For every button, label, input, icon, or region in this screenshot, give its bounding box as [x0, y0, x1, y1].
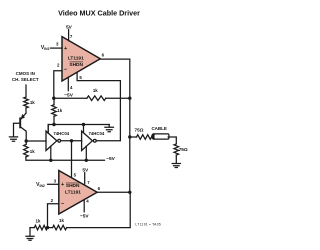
- resistor 75 ohm terminator: [174, 144, 179, 155]
- wire U1 output: [100, 59, 130, 192]
- ground symbol (rail end): [105, 125, 114, 132]
- svg-text:75Ω: 75Ω: [179, 147, 188, 152]
- wire resistor leads: [53, 98, 55, 124]
- wire to 75 ohm: [130, 136, 137, 138]
- op-amp U1 LT1191 (upper): [62, 37, 100, 81]
- svg-text:LT1191: LT1191: [68, 56, 84, 62]
- svg-text:1k: 1k: [30, 149, 35, 154]
- svg-text:1k: 1k: [93, 88, 98, 93]
- ground symbol (U2 gain): [26, 228, 34, 241]
- ground symbol (Q1 base): [9, 137, 17, 141]
- pin 7 label U1: [70, 34, 73, 39]
- node junction rail/output: [128, 97, 131, 100]
- svg-text:74HC04: 74HC04: [53, 131, 69, 136]
- caption: [135, 222, 161, 226]
- node junction inv1 -5V: [49, 159, 52, 162]
- wire gain resistor lead: [30, 227, 34, 229]
- svg-text:−5V: −5V: [64, 92, 73, 98]
- svg-text:74HC04: 74HC04: [89, 131, 105, 136]
- pin 4 label U1: [70, 85, 73, 90]
- node junction 75 ohm tap: [128, 135, 131, 138]
- wire collector to inverter1 input: [26, 140, 46, 142]
- SHDN overline U2: [66, 182, 79, 184]
- svg-text:SHDN: SHDN: [66, 183, 80, 189]
- svg-text:CABLE: CABLE: [151, 126, 167, 131]
- svg-text:Video MUX Cable Driver: Video MUX Cable Driver: [58, 9, 140, 18]
- resistor 1k emitter: [24, 97, 29, 108]
- wire inverter2 top stub: [83, 125, 85, 133]
- power -5V label U1: [64, 92, 73, 98]
- node junction SHDN U2 tap: [70, 139, 73, 142]
- resistor 1k gain U1: [52, 105, 57, 117]
- pin 7 label U2: [87, 180, 90, 185]
- node collector junction: [25, 139, 28, 142]
- power 5V label U2: [82, 167, 89, 173]
- inverter U3B 74HC04: [82, 131, 93, 150]
- pin 4 label U2: [86, 199, 89, 204]
- wire pin4 U1: [67, 77, 69, 90]
- pin 5 label U1: [79, 75, 82, 80]
- wire pin4 U2: [83, 200, 85, 212]
- wire inv1 top power stub: [47, 125, 49, 134]
- svg-text:SHDN: SHDN: [69, 62, 83, 68]
- wire pin7 U1: [68, 29, 70, 40]
- pin 3 label U1: [56, 41, 59, 46]
- wire terminator lead: [175, 155, 177, 163]
- svg-text:−5V: −5V: [80, 214, 89, 220]
- ground symbol (terminator): [172, 164, 180, 168]
- pin 3 label U2: [54, 179, 57, 184]
- wire pin3 U2: [48, 183, 59, 185]
- svg-text:LT1191 • TA05: LT1191 • TA05: [135, 222, 161, 226]
- svg-text:CH. SELECT: CH. SELECT: [12, 77, 39, 82]
- svg-text:1k: 1k: [57, 108, 62, 113]
- wire to -5V rail: [26, 157, 105, 160]
- resistor 1k collector pulldown: [25, 141, 27, 144]
- pin 6 label U2: [98, 186, 101, 191]
- svg-text:−5V: −5V: [106, 156, 115, 162]
- node CMOS IN CH. SELECT label: [12, 71, 39, 82]
- svg-text:1k: 1k: [36, 218, 41, 223]
- resistor 1k feedback U1: [87, 96, 106, 101]
- svg-text:CMOS IN: CMOS IN: [16, 71, 35, 76]
- svg-text:LT1191: LT1191: [65, 190, 81, 196]
- transistor Q1 PNP: [19, 118, 21, 127]
- power 5V label U1: [66, 24, 73, 30]
- resistor 1k gain U2: [34, 225, 47, 230]
- wire inv2 bottom power stub: [85, 146, 87, 160]
- SHDN overline U1: [70, 61, 83, 63]
- power -5V label U2: [80, 214, 89, 220]
- title: [58, 9, 140, 18]
- wire ground rail (74HC04 VCC): [48, 125, 109, 134]
- op-amp U2 LT1191 (lower): [59, 171, 97, 215]
- wire pin5 U1 shutdown route to U3B output: [77, 72, 120, 140]
- wire pin3 U1: [50, 47, 62, 49]
- wire inv1 output to inv2 input: [61, 140, 82, 142]
- wire feedback U2 to output node: [67, 192, 131, 227]
- wire feedback rail U1: [54, 97, 87, 99]
- node junction gain/ground rail: [52, 123, 55, 126]
- svg-text:1k: 1k: [30, 100, 35, 105]
- pin 5 label U2: [74, 173, 77, 178]
- wire pin2 U1 to feedback node: [54, 71, 62, 99]
- resistor 1k feedback U2: [53, 225, 67, 230]
- cable symbol: [151, 126, 167, 131]
- node VIN1 label: [41, 45, 50, 51]
- wire to pin5 U2: [71, 141, 73, 178]
- wire cable to terminator: [168, 137, 176, 144]
- wire U2 output: [97, 191, 130, 193]
- svg-text:75Ω: 75Ω: [135, 127, 144, 132]
- resistor 75 ohm series: [137, 135, 152, 140]
- wire emitter lead: [25, 108, 27, 113]
- wire from CMOS input: [25, 85, 27, 97]
- node junction U2 output: [128, 191, 131, 194]
- svg-text:1k: 1k: [59, 218, 64, 223]
- node junction inv2 stub: [82, 123, 85, 126]
- node VIN2 label: [36, 182, 45, 188]
- node junction inv2 -5V: [85, 159, 88, 162]
- power -5V rail label: [106, 156, 115, 162]
- wire base to ground: [14, 123, 21, 136]
- wire pin7 U2: [84, 173, 86, 184]
- wire feedback rail to output node: [106, 97, 130, 99]
- node junction pin2/gain/fb: [47, 227, 52, 229]
- pin 2 label U1: [57, 63, 60, 68]
- wire inv1 bottom power stub: [50, 146, 52, 160]
- pin 2 label U2: [51, 198, 54, 203]
- node junction pin2/rail: [52, 97, 55, 100]
- pin 6 label U1: [102, 52, 105, 57]
- svg-text:5V: 5V: [82, 167, 89, 173]
- wire pin2 U2: [48, 204, 59, 228]
- svg-text:5V: 5V: [66, 24, 73, 30]
- inverter U3A 74HC04: [46, 131, 57, 150]
